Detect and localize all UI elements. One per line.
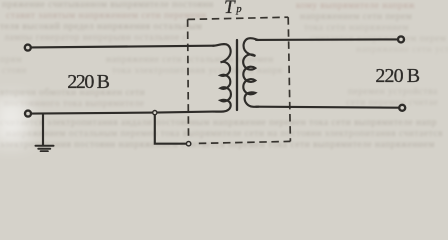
wire: right bottom (secondary winding to output terminal) [256, 107, 399, 108]
wire: left top (from input terminal to primary winding) [31, 46, 214, 48]
wire: shield tap (junction down and right to shield terminal) [155, 114, 186, 144]
terminal: input bottom [25, 111, 31, 117]
terminal: output top [398, 36, 404, 42]
wire: left bottom (input to junction to primary winding) [32, 112, 214, 114]
transformer core [236, 40, 238, 110]
secondary winding W2 [243, 38, 258, 107]
label: 220 V input [67, 71, 108, 94]
label Tp (transformer designator) [224, 0, 242, 19]
wire: ground stem [42, 114, 44, 145]
label: 220 V output [375, 65, 419, 88]
terminal: shield tap [186, 142, 190, 146]
node: junction of bottom wire and shield tap [153, 111, 157, 115]
faint show-through text texture [2, 0, 214, 10]
transformer shield box (dashed) [188, 17, 291, 143]
terminal: input top [25, 45, 31, 51]
shield box left edge [187, 19, 190, 137]
ground symbol [36, 146, 54, 152]
terminal: output bottom [399, 105, 405, 111]
shield box right edge [288, 17, 290, 141]
shield box bottom edge [199, 141, 291, 143]
primary winding W1 [213, 44, 231, 112]
shield box top edge [188, 17, 289, 19]
wire: right top (secondary winding to output terminal) [256, 38, 398, 41]
